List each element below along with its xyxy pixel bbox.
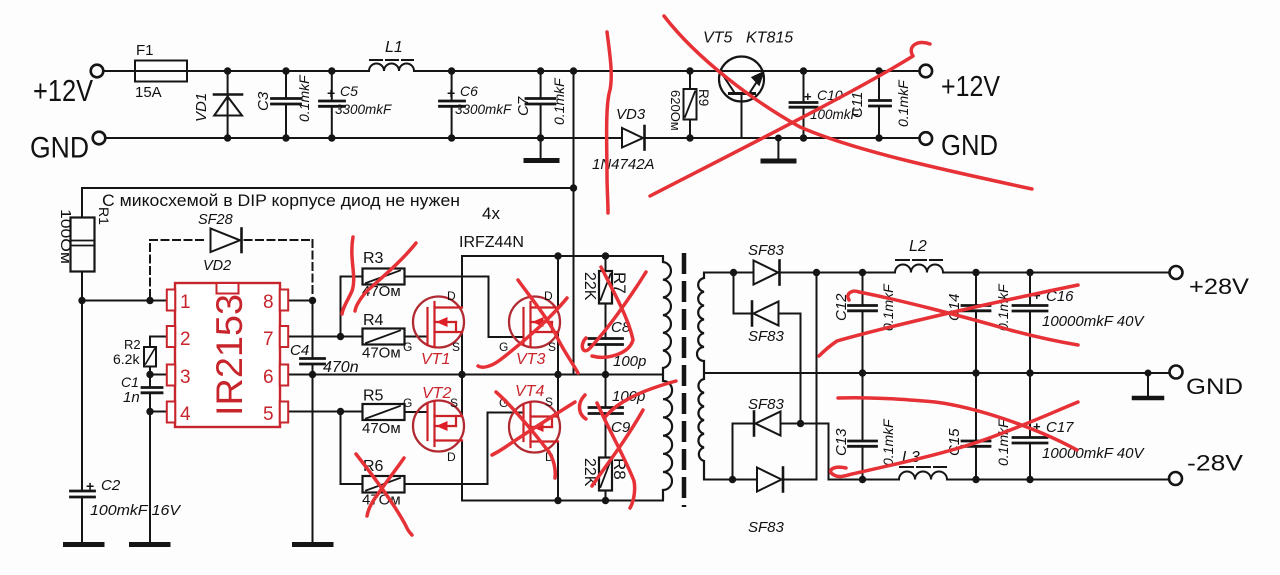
junction dots top section — [224, 67, 231, 74]
svg-text:D: D — [544, 289, 553, 303]
svg-text:C11: C11 — [849, 92, 866, 118]
capacitor C7 — [540, 71, 542, 99]
wire D2 branch — [733, 273, 735, 314]
terminal GND input — [93, 132, 106, 145]
secondary winding — [697, 273, 704, 480]
red cross C9 R8 — [597, 403, 635, 508]
wire pin4 — [150, 411, 167, 413]
svg-text:GND: GND — [941, 130, 998, 162]
svg-text:VD3: VD3 — [616, 106, 646, 123]
red cross VT3 — [518, 280, 578, 373]
ground under C2 — [66, 542, 103, 547]
svg-text:GND: GND — [30, 132, 89, 165]
wire gnd rail right — [646, 137, 920, 139]
svg-text:+28V: +28V — [1189, 274, 1249, 299]
svg-text:IRFZ44N: IRFZ44N — [459, 234, 524, 251]
svg-text:C7: C7 — [515, 96, 532, 116]
wire +12V drop to center tap — [573, 71, 575, 375]
primary winding — [663, 256, 672, 501]
svg-text:5: 5 — [263, 404, 274, 425]
wire R3 to VT3 gate — [405, 276, 489, 278]
svg-text:3300mkF: 3300mkF — [335, 102, 392, 117]
svg-text:10000mkF 40V: 10000mkF 40V — [1042, 445, 1145, 462]
red cross VT4 — [496, 392, 555, 478]
transistor VT3 — [509, 297, 560, 348]
wire +28 rail — [780, 272, 896, 274]
IC IR2153 — [167, 283, 288, 427]
zener VD3 — [622, 128, 643, 148]
wire D4 to +28 rail — [816, 273, 818, 480]
terminal +12V input — [91, 65, 104, 78]
resistor R6 — [363, 476, 405, 493]
wire VT1 source lead — [461, 332, 463, 375]
svg-text:620Ом: 620Ом — [668, 90, 683, 131]
svg-text:С микосхемой в DIP корпусе дио: С микосхемой в DIP корпусе диод не нужен — [102, 191, 460, 210]
mid rail pin6 to transformer — [288, 374, 663, 376]
svg-text:L2: L2 — [909, 238, 927, 255]
svg-text:+: + — [804, 89, 812, 104]
ground stub top right — [777, 138, 779, 159]
svg-text:KT815: KT815 — [746, 30, 793, 47]
red cross VT5 stroke A — [664, 16, 1032, 189]
wire top rail left — [104, 70, 370, 72]
capacitor C16 — [1029, 273, 1031, 306]
red cross R3 — [342, 237, 354, 314]
svg-text:C5: C5 — [340, 83, 358, 99]
resistor R7 — [605, 256, 607, 271]
red cross VT5 stroke B — [650, 42, 930, 196]
svg-text:L1: L1 — [385, 39, 403, 56]
capacitor C10 — [803, 71, 805, 103]
core — [682, 253, 687, 507]
svg-text:C13: C13 — [833, 428, 850, 456]
svg-text:C3: C3 — [255, 91, 272, 111]
svg-text:C1: C1 — [121, 374, 139, 390]
svg-text:F1: F1 — [136, 42, 154, 59]
ground under pin4 — [132, 542, 169, 547]
svg-text:0.1mkF: 0.1mkF — [551, 77, 567, 125]
svg-text:0.1mkF: 0.1mkF — [995, 418, 1011, 466]
svg-text:-28V: -28V — [1187, 451, 1243, 476]
diode VD1 — [227, 71, 229, 138]
svg-text:2: 2 — [180, 329, 191, 350]
resistor R4 — [363, 329, 405, 345]
wire R6 to VT4 gate — [405, 483, 488, 485]
svg-text:VT4: VT4 — [515, 383, 544, 400]
resistor R9 — [689, 71, 691, 89]
junction dots rectifier — [730, 269, 737, 276]
wire VT3 source lead — [557, 332, 559, 375]
wire note rail — [82, 187, 574, 189]
wire pin5 junction down to R6 — [340, 412, 342, 485]
svg-text:10000mkF 40V: 10000mkF 40V — [1042, 313, 1145, 330]
svg-text:S: S — [545, 395, 553, 409]
capacitor C2 — [71, 490, 95, 493]
svg-text:C6: C6 — [460, 83, 478, 99]
capacitor C15 — [975, 373, 977, 441]
svg-text:22K: 22K — [581, 272, 598, 301]
wire R4 to VT1 gate — [405, 336, 428, 338]
svg-text:+: + — [447, 85, 455, 101]
capacitor C14 — [975, 273, 977, 306]
svg-text:SF83: SF83 — [748, 519, 785, 536]
svg-text:VT1: VT1 — [421, 351, 450, 368]
svg-text:+: + — [86, 478, 94, 494]
svg-text:6: 6 — [263, 367, 274, 388]
wire pin3 — [150, 374, 167, 376]
svg-text:+12V: +12V — [33, 73, 93, 108]
svg-text:8: 8 — [263, 292, 274, 313]
red curl left of C9 — [579, 395, 586, 419]
svg-text:R4: R4 — [363, 312, 384, 329]
wire VT2 source lead — [461, 375, 463, 417]
svg-text:SF28: SF28 — [198, 212, 233, 228]
wire bridge top rail — [462, 256, 663, 308]
wire pin7 junction up to R3 — [340, 277, 342, 337]
inductor L1 — [369, 64, 414, 71]
capacitor C4 — [312, 301, 314, 359]
dashed box around VD2 — [150, 240, 313, 297]
capacitor C11 — [878, 71, 880, 101]
junction dots left section — [78, 297, 85, 304]
junction dots bridge — [554, 252, 561, 259]
svg-text:R5: R5 — [363, 388, 384, 405]
transistor VT5 — [719, 57, 764, 102]
svg-text:SF83: SF83 — [748, 328, 785, 345]
svg-text:100mkF 16V: 100mkF 16V — [90, 502, 182, 519]
svg-text:VT2: VT2 — [422, 385, 451, 402]
wire VT4 source lead — [557, 375, 559, 417]
red cross right upper rising — [819, 285, 1078, 356]
svg-text:3: 3 — [180, 367, 191, 388]
svg-text:100Ом: 100Ом — [57, 209, 73, 264]
svg-text:VT3: VT3 — [516, 351, 545, 368]
wire VT3 drain lead — [557, 256, 559, 308]
svg-text:0.1mkF: 0.1mkF — [296, 74, 312, 122]
wire pin8 to C4 — [288, 300, 313, 302]
resistor R3 — [363, 269, 405, 285]
svg-text:4x: 4x — [482, 204, 500, 223]
transistor VT4 — [509, 402, 560, 453]
capacitor C6 — [451, 71, 453, 101]
svg-text:D: D — [447, 450, 456, 464]
svg-text:1n: 1n — [123, 389, 140, 406]
svg-text:C10: C10 — [817, 87, 843, 103]
svg-text:C4: C4 — [290, 342, 309, 359]
svg-text:GND: GND — [1186, 374, 1243, 399]
svg-text:100p: 100p — [612, 388, 645, 405]
svg-text:SF83: SF83 — [748, 242, 785, 259]
ground symbol right — [1147, 373, 1149, 396]
svg-text:6.2k: 6.2k — [113, 351, 140, 367]
svg-text:3300mkF: 3300mkF — [455, 102, 512, 117]
red cross right lower falling — [838, 398, 1077, 450]
wire secondary top row — [704, 272, 754, 274]
red cross right lower rising — [831, 402, 1078, 477]
wire top rail right of L1 — [414, 70, 920, 72]
red mark vertical near VD3 — [607, 32, 612, 213]
svg-text:VD2: VD2 — [203, 258, 231, 274]
svg-text:0.1mkF: 0.1mkF — [995, 283, 1011, 331]
svg-text:C17: C17 — [1046, 419, 1074, 436]
svg-text:R1: R1 — [96, 207, 112, 225]
wire gnd rail left — [106, 137, 623, 139]
wire pin5 — [288, 411, 363, 413]
capacitor C3 — [285, 71, 287, 99]
svg-text:C2: C2 — [101, 477, 121, 494]
svg-text:R9: R9 — [696, 89, 711, 106]
terminal GND out — [920, 132, 933, 145]
svg-text:1: 1 — [180, 292, 191, 313]
svg-text:SF83: SF83 — [748, 396, 785, 413]
resistor R2 — [149, 337, 151, 348]
diode SF83 D4 — [757, 468, 782, 492]
svg-text:4: 4 — [180, 404, 191, 425]
svg-text:47Ом: 47Ом — [362, 420, 401, 437]
wire D3 branch — [732, 424, 734, 480]
inductor L2 — [895, 265, 943, 273]
capacitor C17 — [1029, 373, 1031, 438]
wire R1 to C2 — [81, 272, 83, 492]
wire R5 to VT2 gate — [405, 411, 428, 413]
capacitor C1 — [149, 375, 151, 388]
resistor R8 — [599, 458, 612, 491]
svg-text:47Ом: 47Ом — [362, 345, 401, 362]
wire pin7 — [288, 336, 363, 338]
svg-text:VD1: VD1 — [193, 93, 210, 122]
capacitor C13 — [862, 373, 864, 441]
svg-text:0.1mkF: 0.1mkF — [880, 283, 896, 331]
svg-text:G: G — [403, 340, 412, 354]
red cross right upper falling — [848, 291, 1078, 345]
red cross R7 C8 — [592, 267, 633, 357]
wire pin1 — [82, 300, 167, 302]
fuse F1 — [135, 61, 187, 82]
svg-text:0.1mkF: 0.1mkF — [880, 418, 896, 466]
svg-text:7: 7 — [263, 329, 274, 350]
svg-text:R3: R3 — [363, 250, 384, 267]
terminal +12V out — [920, 65, 933, 78]
wire bridge bottom rail — [462, 441, 663, 501]
svg-text:+12V: +12V — [941, 71, 1001, 103]
capacitor C12 — [862, 273, 864, 306]
svg-text:1N4742A: 1N4742A — [592, 156, 655, 173]
diode SF83 D2 — [751, 302, 754, 326]
transistor VT2 — [413, 401, 464, 452]
red cross R6 — [356, 454, 412, 535]
terminal +28V — [1170, 266, 1183, 279]
svg-text:R2: R2 — [124, 337, 141, 352]
svg-text:15A: 15A — [135, 84, 162, 101]
wire secondary center tap / GND rail — [704, 372, 1169, 374]
wire VT4 drain lead — [557, 442, 559, 501]
diode SF83 D1 — [754, 261, 779, 285]
svg-text:S: S — [452, 340, 460, 354]
svg-text:0.1mkF: 0.1mkF — [895, 79, 911, 127]
resistor R1 — [81, 188, 83, 218]
svg-text:VT5: VT5 — [703, 30, 732, 47]
diode SF83 D3 — [753, 412, 756, 436]
svg-text:+: + — [327, 85, 335, 101]
capacitor C8 — [589, 337, 623, 340]
svg-text:S: S — [548, 340, 556, 354]
capacitor C9 — [605, 375, 607, 408]
svg-text:IR2153: IR2153 — [209, 294, 250, 416]
red stroke over 100p lower — [606, 381, 676, 416]
wire -28 rail — [829, 479, 900, 481]
svg-text:D: D — [447, 289, 456, 303]
ground under C7 — [526, 158, 557, 163]
diode VD2 SF28 — [211, 229, 241, 253]
terminal -28V — [1169, 472, 1182, 485]
wire pin2 — [150, 336, 167, 338]
inductor L3 — [899, 472, 947, 480]
ground under C4 line — [295, 542, 332, 547]
svg-text:G: G — [499, 340, 508, 354]
resistor R5 — [363, 404, 405, 420]
terminal GND right — [1170, 366, 1183, 379]
svg-text:G: G — [403, 396, 412, 410]
transistor VT1 — [413, 297, 464, 348]
svg-text:470n: 470n — [323, 359, 359, 376]
wire D4 row — [704, 479, 757, 481]
capacitor C5 — [331, 71, 333, 101]
